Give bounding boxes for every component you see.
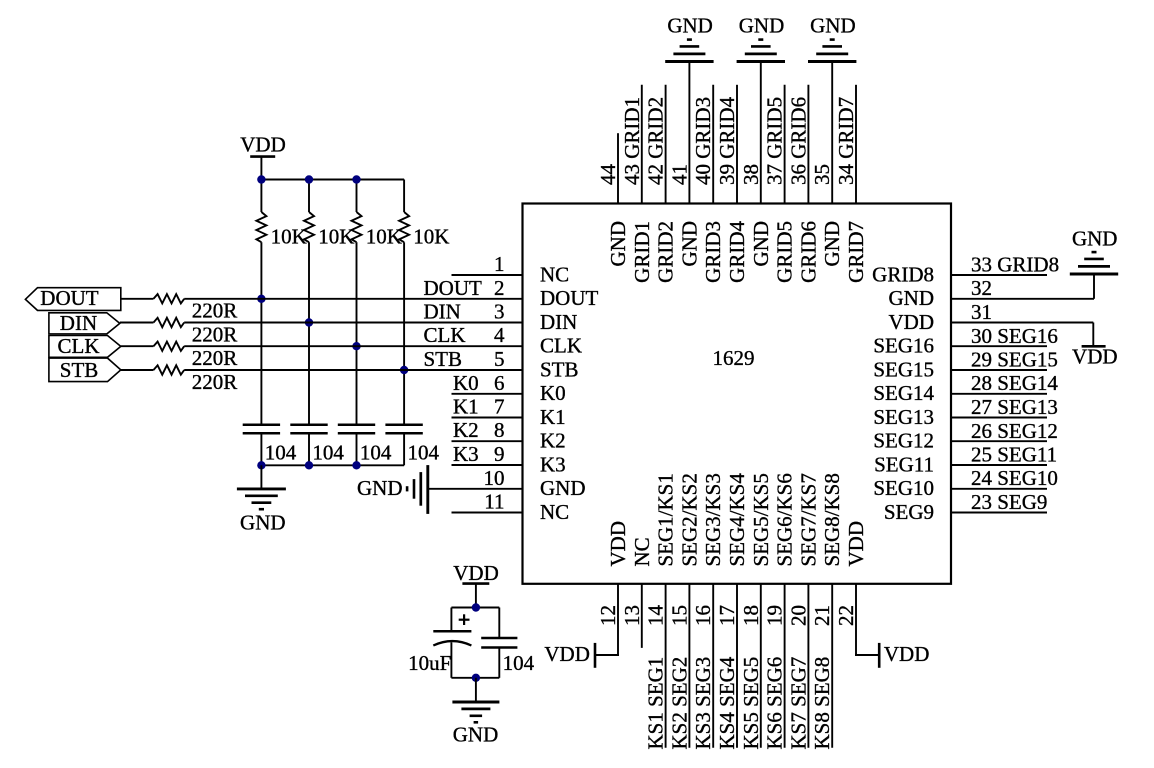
svg-text:15: 15 [667, 605, 691, 626]
value label 220R (R8) [192, 370, 238, 394]
polarity mark + (C5) [459, 614, 470, 625]
svg-text:KS5 SEG5: KS5 SEG5 [739, 657, 763, 750]
pin label 36 GRID6 [786, 97, 810, 185]
net label KS4 SEG4 [715, 656, 739, 749]
svg-text:CLK: CLK [540, 334, 582, 358]
pin label 25 SEG11 [971, 443, 1057, 467]
pin name VDD (pin 12) [606, 521, 630, 567]
svg-text:STB: STB [540, 357, 579, 381]
svg-text:STB: STB [60, 358, 99, 382]
pin name GND (pin 35) [820, 221, 844, 267]
svg-text:K1: K1 [453, 395, 479, 419]
wire pin 16 vertical [712, 584, 714, 748]
wire VDD stem [260, 157, 262, 180]
wire pin 30 [951, 345, 1047, 347]
pin number 20 [786, 605, 810, 626]
wire pin 9 stub [452, 464, 523, 466]
svg-text:24 SEG10: 24 SEG10 [971, 466, 1058, 490]
wire pin 42 vertical [665, 85, 667, 204]
svg-text:28 SEG14: 28 SEG14 [971, 371, 1058, 395]
svg-text:GRID8: GRID8 [872, 262, 934, 286]
svg-text:22: 22 [834, 605, 858, 626]
net label DOUT (pin 2) [424, 276, 482, 300]
svg-text:CLK: CLK [58, 334, 100, 358]
pin name SEG2/KS2 (pin 15) [677, 473, 701, 566]
wire pin31 to VDD drop [1092, 323, 1094, 347]
svg-text:NC: NC [540, 500, 569, 524]
svg-text:CLK: CLK [424, 323, 466, 347]
wire pin 11 stub [452, 512, 523, 514]
net label KS8 SEG8 [810, 657, 834, 750]
capacitor C1 104 top plate [243, 423, 280, 426]
svg-text:36 GRID6: 36 GRID6 [786, 97, 810, 185]
pin label 34 GRID7 [834, 97, 858, 185]
svg-text:VDD: VDD [606, 521, 630, 567]
pin number 12 [596, 605, 620, 626]
svg-text:VDD: VDD [453, 561, 499, 585]
svg-text:37 GRID5: 37 GRID5 [763, 97, 787, 185]
svg-text:11: 11 [484, 490, 504, 514]
svg-text:10K: 10K [413, 225, 449, 249]
wire R3 to signal line [356, 242, 358, 346]
pin label 29 SEG15 [971, 348, 1058, 372]
svg-text:43 GRID1: 43 GRID1 [620, 97, 644, 185]
wire pin 25 [951, 464, 1047, 466]
pin name GRID5 (pin 37) [773, 221, 797, 283]
pin name K1 (pin 7) [540, 405, 566, 429]
pin name SEG7/KS7 (pin 20) [796, 473, 820, 566]
svg-text:40 GRID3: 40 GRID3 [691, 97, 715, 185]
wire pin 19 vertical [784, 584, 786, 748]
wire pull-up bus [261, 179, 404, 181]
wire to C6 [498, 608, 500, 639]
pin name DOUT (pin 2) [540, 286, 598, 310]
svg-text:VDD: VDD [544, 642, 590, 666]
pin name SEG9 (pin 23) [884, 500, 934, 524]
pin label 42 GRID2 [644, 97, 668, 185]
wire pin 36 vertical [807, 85, 809, 204]
wire pin 41 vertical [688, 62, 690, 204]
svg-text:4: 4 [494, 323, 505, 347]
svg-text:10K: 10K [271, 225, 307, 249]
wire R4 to signal line [403, 242, 405, 370]
ground symbol GND (top 2, pin 38) [737, 40, 785, 62]
resistor R3 10K zigzag [352, 212, 362, 242]
wire pin 39 vertical [736, 85, 738, 204]
net label KS3 SEG3 [691, 657, 715, 750]
net label KS6 SEG6 [763, 657, 787, 750]
svg-text:104: 104 [265, 441, 297, 465]
resistor R5 220R zigzag [154, 294, 185, 303]
pin label 30 SEG16 [971, 324, 1058, 348]
svg-text:10K: 10K [366, 225, 402, 249]
label STB (port) [60, 358, 99, 382]
wire bus to resistor R3 [356, 180, 358, 213]
ground symbol GND (decoupling) [452, 702, 499, 722]
pin name GND (pin 10) [540, 476, 586, 500]
capacitor C3 104 bottom plate [338, 432, 375, 435]
pin number 22 [834, 605, 858, 626]
svg-text:220R: 220R [192, 299, 238, 323]
value label 10uF (C5) [408, 651, 451, 675]
pin number 2 [494, 276, 505, 300]
svg-text:SEG13: SEG13 [873, 405, 934, 429]
label VDD (pin 22) [884, 642, 930, 666]
svg-text:GND: GND [240, 511, 286, 535]
svg-text:25 SEG11: 25 SEG11 [971, 443, 1057, 467]
svg-text:GND: GND [667, 14, 713, 38]
wire to C5 positive plate [450, 608, 452, 632]
svg-text:DOUT: DOUT [424, 276, 482, 300]
capacitor C4 104 top plate [385, 423, 422, 426]
label GND (right) [1072, 226, 1118, 250]
wire decoupling top rail [451, 607, 499, 609]
capacitor C5 10uF positive plate [433, 630, 471, 633]
label GND (top 1) [667, 14, 713, 38]
junction ground bus / C2 [305, 461, 313, 469]
wire C3 to ground bus [356, 433, 358, 465]
svg-text:DOUT: DOUT [540, 286, 598, 310]
svg-text:19: 19 [763, 605, 787, 626]
wire pin 29 [951, 369, 1047, 371]
wire pin 38 vertical [760, 62, 762, 204]
svg-text:SEG14: SEG14 [873, 381, 934, 405]
wire pin 31 [951, 322, 1093, 324]
wire R6 to pin 3 [184, 322, 522, 324]
svg-text:7: 7 [494, 395, 505, 419]
wire bus to resistor R1 [260, 180, 262, 213]
value label 10K (R4) [413, 225, 449, 249]
svg-text:33 GRID8: 33 GRID8 [971, 253, 1059, 277]
svg-text:10: 10 [484, 466, 505, 490]
net label K0 [453, 371, 479, 395]
svg-text:41: 41 [667, 164, 691, 185]
value label 220R (R7) [192, 346, 238, 370]
pin number 18 [739, 605, 763, 626]
junction R1 / DOUT [257, 295, 265, 303]
IC U1 part number label 1629 [713, 346, 755, 370]
svg-text:SEG8/KS8: SEG8/KS8 [820, 473, 844, 566]
svg-text:K2: K2 [453, 418, 479, 442]
wire pin 20 vertical [807, 584, 809, 748]
wire pin 18 vertical [760, 584, 762, 748]
wire DOUT port to R5 [121, 298, 154, 300]
net label K2 [453, 418, 479, 442]
pin name NC (pin 1) [540, 262, 569, 286]
junction R3 / CLK [352, 342, 360, 350]
svg-text:38: 38 [739, 164, 763, 185]
svg-text:GRID5: GRID5 [773, 221, 797, 283]
pin name SEG6/KS6 (pin 19) [773, 473, 797, 566]
pin label 37 GRID5 [763, 97, 787, 185]
pin number 7 [494, 395, 505, 419]
net label CLK (pin 4) [424, 323, 466, 347]
value label 220R (R5) [192, 299, 238, 323]
svg-text:GND: GND [606, 221, 630, 267]
pin number 10 [484, 466, 505, 490]
svg-text:104: 104 [312, 441, 344, 465]
svg-text:GND: GND [810, 14, 856, 38]
wire pin 23 [951, 512, 1047, 514]
pin name GRID6 (pin 36) [796, 221, 820, 283]
wire C2 to ground bus [308, 433, 310, 465]
wire DIN port to R6 [120, 322, 154, 324]
pin name SEG12 (pin 26) [873, 429, 934, 453]
svg-text:DIN: DIN [424, 300, 461, 324]
pin label 40 GRID3 [691, 97, 715, 185]
pin number 11 [484, 490, 504, 514]
pin number 1 [494, 252, 505, 276]
svg-text:104: 104 [503, 651, 535, 675]
capacitor C2 104 bottom plate [290, 432, 327, 435]
pin name GRID7 (pin 34) [844, 221, 868, 283]
pin name GRID1 (pin 43) [630, 221, 654, 283]
net label KS7 SEG7 [786, 657, 810, 750]
svg-text:K3: K3 [540, 452, 566, 476]
net label KS2 SEG2 [667, 657, 691, 750]
wire R7 to pin 4 [184, 345, 522, 347]
svg-text:27 SEG13: 27 SEG13 [971, 395, 1058, 419]
svg-text:31: 31 [971, 300, 992, 324]
pin label 28 SEG14 [971, 371, 1058, 395]
wire pin 14 vertical [665, 584, 667, 748]
pin name VDD (pin 31) [889, 310, 935, 334]
svg-text:17: 17 [715, 605, 739, 626]
svg-text:21: 21 [810, 605, 834, 626]
wire pin 35 vertical [831, 62, 833, 204]
wire bus to resistor R4 [403, 180, 405, 213]
pin name GND (pin 32) [889, 286, 935, 310]
pin label 32 [971, 276, 992, 300]
capacitor C5 10uF curved plate [433, 641, 471, 645]
svg-text:SEG2/KS2: SEG2/KS2 [677, 473, 701, 566]
svg-text:10K: 10K [318, 225, 354, 249]
net label STB (pin 5) [424, 347, 463, 371]
svg-text:KS6 SEG6: KS6 SEG6 [763, 657, 787, 750]
wire pin 24 [951, 488, 1047, 490]
wire pin 22 vertical [855, 584, 857, 655]
wire pin 6 stub [452, 393, 523, 395]
pin name GRID3 (pin 40) [701, 221, 725, 283]
wire pin 12 vertical [617, 584, 619, 655]
junction ground bus / C3 [352, 461, 360, 469]
pin name K2 (pin 8) [540, 429, 566, 453]
wire pin 1 stub [452, 274, 523, 276]
power symbol VDD (decoupling) [462, 582, 489, 585]
svg-text:SEG3/KS3: SEG3/KS3 [701, 473, 725, 566]
wire signal to capacitor C1 [260, 299, 262, 425]
pin label 41 [667, 164, 691, 185]
ground symbol GND (pin 10, rotated) [407, 465, 428, 514]
wire CLK port to R7 [121, 345, 154, 347]
resistor R1 10K zigzag [256, 212, 266, 242]
pin number 17 [715, 605, 739, 626]
power symbol VDD (pin 12) [594, 643, 597, 668]
pin name VDD (pin 22) [844, 521, 868, 567]
wire pin 33 [951, 274, 1047, 276]
pin number 3 [494, 300, 505, 324]
pin number 13 [620, 605, 644, 626]
pin name SEG15 (pin 29) [873, 357, 934, 381]
svg-text:23 SEG9: 23 SEG9 [971, 490, 1047, 514]
pin label 38 [739, 164, 763, 185]
svg-text:29 SEG15: 29 SEG15 [971, 348, 1058, 372]
wire decoupling bottom rail [451, 677, 499, 679]
wire pin12 to VDD [595, 654, 619, 656]
svg-text:1629: 1629 [713, 346, 755, 370]
pin number 21 [810, 605, 834, 626]
label GND (top 2) [739, 14, 785, 38]
pin name SEG1/KS1 (pin 14) [654, 473, 678, 566]
svg-text:39 GRID4: 39 GRID4 [715, 96, 739, 185]
pin name CLK (pin 4) [540, 334, 582, 358]
svg-text:104: 104 [360, 441, 392, 465]
wire R5 to pin 2 [184, 298, 522, 300]
power symbol VDD (right) [1082, 345, 1106, 348]
svg-text:20: 20 [786, 605, 810, 626]
label VDD (right) [1072, 344, 1118, 368]
svg-text:K1: K1 [540, 405, 566, 429]
wire R2 to signal line [308, 242, 310, 322]
resistor R7 220R zigzag [154, 342, 185, 351]
svg-text:KS8 SEG8: KS8 SEG8 [810, 657, 834, 750]
wire pin32 to ground riser [1093, 274, 1095, 299]
label VDD (decoupling) [453, 561, 499, 585]
pin name NC (pin 11) [540, 500, 569, 524]
svg-text:GND: GND [540, 476, 586, 500]
pin name SEG3/KS3 (pin 16) [701, 473, 725, 566]
svg-text:35: 35 [810, 164, 834, 185]
svg-text:GRID2: GRID2 [654, 221, 678, 283]
svg-text:18: 18 [739, 605, 763, 626]
pin name NC (pin 13) [630, 537, 654, 566]
svg-text:SEG5/KS5: SEG5/KS5 [749, 473, 773, 566]
svg-text:GND: GND [357, 476, 403, 500]
svg-text:K3: K3 [453, 442, 479, 466]
port connector DIN [49, 313, 120, 334]
junction pull-up bus / R2 [305, 175, 313, 183]
value label 104 (C4) [408, 441, 440, 465]
svg-text:104: 104 [408, 441, 440, 465]
junction capacitors / ground [472, 674, 480, 682]
pin label 35 [810, 164, 834, 185]
pin label 24 SEG10 [971, 466, 1058, 490]
wire pin 34 vertical [855, 85, 857, 204]
wire signal to capacitor C3 [356, 346, 358, 425]
pin number 4 [494, 323, 505, 347]
wire pin 13 vertical [641, 584, 643, 648]
svg-text:220R: 220R [192, 370, 238, 394]
pin number 16 [691, 605, 715, 626]
svg-text:34 GRID7: 34 GRID7 [834, 97, 858, 185]
svg-text:DOUT: DOUT [40, 286, 98, 310]
pin label 27 SEG13 [971, 395, 1058, 419]
resistor R6 220R zigzag [154, 318, 185, 327]
label VDD (pin 12) [544, 642, 590, 666]
svg-text:SEG1/KS1: SEG1/KS1 [654, 473, 678, 566]
pin name K3 (pin 9) [540, 452, 566, 476]
pin name SEG4/KS4 (pin 17) [725, 473, 749, 567]
pin name SEG16 (pin 30) [873, 334, 934, 358]
wire ground stem (decoupling) [475, 678, 477, 702]
wire pin 7 stub [452, 417, 523, 419]
wire pin22 to VDD [855, 654, 879, 656]
svg-text:SEG9: SEG9 [884, 500, 934, 524]
pin name DIN (pin 3) [540, 310, 577, 334]
wire R8 to pin 5 [184, 369, 522, 371]
net label DIN (pin 3) [424, 300, 461, 324]
wire R1 to signal line [260, 242, 262, 299]
wire pin10 to ground [428, 488, 523, 490]
svg-text:VDD: VDD [889, 310, 935, 334]
pin name SEG5/KS5 (pin 18) [749, 473, 773, 566]
pin number 19 [763, 605, 787, 626]
wire pin 28 [951, 393, 1047, 395]
value label 220R (R6) [192, 322, 238, 346]
wire pin 43 vertical [641, 85, 643, 204]
resistor R2 10K zigzag [304, 212, 314, 242]
port connector CLK [49, 336, 121, 358]
wire signal to capacitor C2 [308, 323, 310, 425]
svg-text:STB: STB [424, 347, 463, 371]
pin name SEG8/KS8 (pin 21) [820, 473, 844, 566]
junction ground bus / C1 [257, 461, 265, 469]
svg-text:8: 8 [494, 418, 505, 442]
value label 104 (C6) [503, 651, 535, 675]
pin number 14 [644, 605, 668, 627]
label DIN (port) [60, 311, 97, 335]
svg-text:SEG7/KS7: SEG7/KS7 [796, 473, 820, 566]
wire C1 to ground bus [260, 433, 262, 465]
wire pin 15 vertical [688, 584, 690, 748]
pin label 33 GRID8 [971, 253, 1059, 277]
svg-text:SEG15: SEG15 [873, 357, 934, 381]
svg-text:GRID7: GRID7 [844, 221, 868, 283]
svg-text:SEG10: SEG10 [873, 476, 934, 500]
net label K3 [453, 442, 479, 466]
junction pull-up bus / R1 [257, 175, 265, 183]
wire C4 to ground bus [403, 433, 405, 465]
svg-text:44: 44 [596, 164, 620, 186]
svg-text:9: 9 [494, 442, 505, 466]
pin label 44 [596, 164, 620, 186]
capacitor C6 104 bottom plate [481, 646, 517, 649]
junction R4 / STB [400, 366, 408, 374]
value label 104 (C2) [312, 441, 344, 465]
resistor R8 220R zigzag [154, 365, 185, 374]
pin name SEG14 (pin 28) [873, 381, 934, 405]
svg-text:KS4 SEG4: KS4 SEG4 [715, 656, 739, 749]
capacitor C1 104 bottom plate [243, 432, 280, 435]
net label KS5 SEG5 [739, 657, 763, 750]
wire VDD stem (decoupling) [475, 584, 477, 608]
pin name GRID2 (pin 42) [654, 221, 678, 283]
pin number 15 [667, 605, 691, 626]
svg-text:10uF: 10uF [408, 651, 451, 675]
resistor R4 10K zigzag [399, 212, 409, 242]
wire pin 17 vertical [736, 584, 738, 748]
pin name GND (pin 44) [606, 221, 630, 267]
capacitor C3 104 top plate [338, 423, 375, 426]
label VDD (pull-ups) [240, 133, 286, 157]
pin label 23 SEG9 [971, 490, 1047, 514]
wire pin 27 [951, 417, 1047, 419]
value label 10K (R1) [271, 225, 307, 249]
label GND (decoupling) [453, 722, 499, 746]
pin label 31 [971, 300, 992, 324]
net label K1 [453, 395, 479, 419]
pin number 9 [494, 442, 505, 466]
